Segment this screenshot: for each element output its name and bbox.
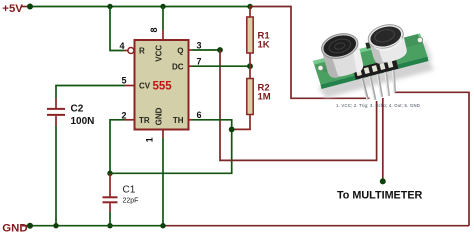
node multimeter probe	[380, 178, 386, 184]
wire TR to TH link	[110, 129, 232, 173]
svg-text:GND: GND	[2, 222, 27, 233]
svg-text:1K: 1K	[258, 40, 270, 51]
svg-text:CV: CV	[139, 82, 151, 91]
label 22pF	[123, 198, 139, 205]
wire +5V top rail	[30, 6, 250, 8]
node C junction at x=250	[247, 4, 252, 9]
svg-text:100N: 100N	[71, 116, 95, 127]
wire pin 7 DC	[189, 65, 251, 67]
svg-text:DC: DC	[172, 63, 184, 72]
pin name TR	[139, 116, 150, 125]
svg-text:GND: GND	[155, 107, 164, 125]
wire pin 5 CV to C2	[56, 86, 135, 99]
wire pin 6 TH	[189, 120, 232, 130]
capacitor C2	[47, 98, 65, 126]
pin name DC	[172, 63, 184, 72]
pin name Q	[177, 47, 183, 56]
svg-text:1M: 1M	[258, 92, 271, 103]
capacitor C1	[103, 173, 118, 212]
wire module GND to ground rail	[394, 92, 469, 225]
pin number 3	[197, 41, 202, 51]
wire Q to module Trig	[220, 50, 377, 160]
pin name GND (rotated)	[155, 107, 164, 125]
header pin 4	[386, 70, 389, 96]
label +5V	[2, 3, 23, 15]
ultrasonic module photo	[313, 21, 434, 108]
label C1	[123, 185, 136, 196]
label 100N	[71, 116, 95, 127]
header pad strip	[353, 58, 398, 80]
header pin 5	[393, 68, 395, 93]
wire to pin 8 VCC	[162, 7, 164, 41]
resistor R2	[232, 66, 254, 129]
svg-text:2: 2	[122, 111, 127, 121]
label To MULTIMETER	[337, 190, 423, 202]
label C2	[71, 104, 84, 115]
label 1M	[258, 92, 271, 103]
label 1K	[258, 40, 270, 51]
svg-text:4: 4	[120, 41, 125, 51]
svg-text:22pF: 22pF	[123, 198, 139, 205]
label R1	[258, 31, 271, 42]
screw hole left	[318, 65, 323, 70]
node B junction at x=163	[160, 4, 165, 9]
label R2	[258, 83, 270, 94]
555 value label	[153, 81, 173, 93]
svg-text:Q: Q	[177, 47, 183, 56]
pin 4 inversion bubble	[128, 48, 134, 54]
wire C2 to ground rail	[55, 126, 57, 226]
svg-text:+5V: +5V	[2, 3, 23, 15]
pin name R	[139, 47, 145, 56]
screw hole right	[417, 37, 422, 42]
svg-text:3: 3	[197, 41, 202, 51]
wire to pin 4 reset	[110, 7, 128, 51]
svg-text:TR: TR	[139, 116, 150, 125]
small IC on pcb	[343, 57, 357, 68]
pin number 5	[122, 76, 127, 86]
pin name TH	[173, 116, 184, 125]
node 555 ground junction	[160, 223, 165, 228]
wire C1 to ground rail	[107, 212, 112, 228]
pin number 7	[197, 57, 202, 67]
pin number 8 (rotated)	[149, 27, 159, 32]
resistor R1	[247, 7, 253, 67]
header pin 3	[378, 72, 382, 97]
svg-text:5: 5	[122, 76, 127, 86]
wire pin 3 Q output	[189, 49, 221, 51]
wire +5V to module VCC pin	[250, 7, 370, 99]
pin number 6	[197, 110, 202, 120]
node R1/R2/DC junction	[247, 63, 253, 69]
svg-text:1. VCC; 2. Trig; 3. Echo; 4. O: 1. VCC; 2. Trig; 3. Echo; 4. Out; 5. GND	[336, 103, 420, 108]
transducer left body	[319, 30, 365, 80]
svg-text:VCC: VCC	[155, 45, 164, 62]
svg-text:To MULTIMETER: To MULTIMETER	[337, 190, 423, 202]
PCB board	[313, 34, 428, 85]
pin number 2	[122, 111, 127, 121]
GND terminal node	[22, 223, 33, 229]
op-amp U1 555 timer body	[135, 40, 189, 130]
node Q junction	[217, 47, 223, 53]
svg-text:1: 1	[144, 137, 154, 142]
wire pin 2 TR	[110, 120, 135, 174]
svg-text:8: 8	[149, 27, 159, 32]
svg-text:C1: C1	[123, 185, 136, 196]
wire ground rail green	[30, 225, 163, 227]
transducer right body	[366, 21, 410, 66]
pin name CV	[139, 82, 151, 91]
node TR/C1 junction	[107, 171, 112, 176]
pin name VCC (rotated)	[155, 45, 164, 62]
header pin 2	[370, 74, 376, 100]
svg-text:555: 555	[153, 81, 173, 93]
wire pin 1 GND of 555	[162, 130, 164, 226]
svg-text:6: 6	[197, 110, 202, 120]
node A junction at x=110	[107, 4, 112, 9]
svg-text:C2: C2	[71, 104, 84, 115]
photo shadow	[318, 58, 434, 98]
wire ground rail red	[163, 225, 469, 227]
header pin 1	[362, 76, 368, 99]
svg-text:TH: TH	[173, 116, 184, 125]
+5V terminal node	[21, 4, 33, 10]
svg-text:7: 7	[197, 57, 202, 67]
wire module Echo to multimeter	[382, 98, 384, 179]
svg-text:R: R	[139, 47, 145, 56]
node TH/R2 junction	[229, 126, 235, 132]
label GND	[2, 222, 27, 234]
node C2 ground junction	[53, 223, 58, 228]
pin number 4	[120, 41, 125, 51]
pin number 1 (rotated)	[144, 137, 154, 142]
